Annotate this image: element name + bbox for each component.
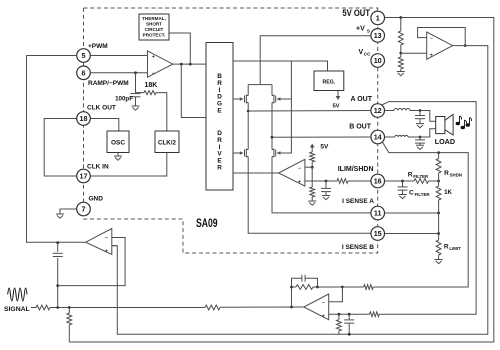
label GND: [89, 196, 104, 203]
label A OUT: [350, 96, 372, 103]
thermal protect box: [139, 14, 169, 40]
svg-text:+: +: [152, 55, 156, 61]
speaker LOAD: [435, 114, 455, 145]
wire to A cap: [410, 110, 420, 112]
music notes: [456, 116, 471, 129]
resistor pullup: [310, 152, 315, 167]
capacitor plus to ref: [344, 314, 354, 334]
comparator A1 (PWM comparator): [148, 51, 173, 77]
wire bridge top rail: [233, 61, 328, 71]
label C FILTER: [409, 190, 430, 198]
capacitor diff feedback: [292, 275, 318, 287]
svg-text:1K: 1K: [444, 189, 452, 196]
svg-text:5V OUT: 5V OUT: [342, 8, 370, 18]
svg-text:THERMAL,: THERMAL,: [142, 16, 166, 21]
svg-text:E: E: [217, 108, 222, 115]
wire input line: [50, 307, 205, 309]
resistor b feedback: [364, 285, 374, 290]
svg-text:5V: 5V: [320, 144, 329, 151]
pin 17: [77, 169, 91, 183]
comparator A2 (current limit): [279, 159, 305, 186]
svg-text:−: −: [152, 71, 156, 77]
wire buffer output to reference rail: [112, 46, 488, 335]
node fb right: [316, 286, 319, 289]
svg-text:SA09: SA09: [196, 216, 218, 230]
svg-text:B OUT: B OUT: [349, 124, 372, 131]
wire node to buffer +: [401, 52, 427, 54]
node fb left: [290, 286, 293, 289]
wire ilim + input line: [305, 180, 337, 182]
label R LIMIT: [444, 244, 461, 252]
resistor bias: [67, 308, 72, 343]
capacitor C FILTER: [398, 181, 408, 194]
svg-text:18: 18: [80, 114, 88, 123]
resistor divider bottom half: [398, 53, 403, 71]
node A cap: [419, 109, 422, 112]
node shdn: [437, 180, 440, 183]
resistor 1K: [436, 181, 441, 213]
svg-text:R: R: [217, 165, 222, 172]
pin 13: [371, 29, 385, 43]
wire pin5 to comparator +: [90, 55, 147, 57]
svg-text:+: +: [298, 180, 302, 186]
label R FILTER: [408, 172, 429, 180]
ground under A cap: [416, 124, 424, 128]
wire pin1 to outer loop: [69, 18, 494, 343]
op-amp U1 (half supply buffer): [427, 32, 453, 59]
wire pin18 to OSC: [90, 119, 119, 132]
resistor R FILTER: [414, 179, 429, 184]
wire B to load: [420, 129, 436, 137]
svg-text:−: −: [430, 36, 434, 42]
wire left rail from +PWM pin 5 down to error amp output: [27, 56, 86, 243]
wire pin7 to ground: [60, 209, 77, 214]
resistor 18K: [144, 91, 156, 95]
svg-text:CLK IN: CLK IN: [87, 164, 109, 171]
clock divider CLK/2 box: [155, 131, 179, 153]
label +Vs: [356, 26, 370, 34]
wire fb left: [291, 287, 293, 307]
label CLK IN: [87, 164, 109, 171]
wire pin15 to sense rail: [385, 213, 439, 234]
supply arrow 5V pullup: [310, 144, 329, 153]
wire thermal box to comparator output: [169, 33, 190, 64]
svg-text:+PWM: +PWM: [88, 43, 108, 50]
label SA09: [196, 216, 218, 230]
node r shdn top: [437, 151, 440, 154]
resistor R SHDN: [436, 153, 441, 181]
label 1K: [444, 189, 452, 196]
svg-text:PROTECT.: PROTECT.: [143, 33, 166, 38]
svg-text:5V: 5V: [332, 104, 339, 110]
svg-text:LOAD: LOAD: [435, 137, 455, 146]
wire upper gate bus: [277, 98, 292, 100]
svg-text:C: C: [409, 190, 414, 197]
ground under divider2: [397, 72, 405, 76]
svg-text:17: 17: [80, 172, 88, 181]
wire to pin 16: [348, 180, 371, 182]
node comparator output branch: [180, 63, 183, 66]
wire pin11 to sense rail: [385, 212, 439, 214]
label CLK OUT: [87, 105, 116, 112]
inductor A filter: [394, 109, 410, 111]
svg-text:−: −: [321, 300, 325, 306]
svg-text:10: 10: [374, 56, 382, 65]
wire pin6 RAMP to comparator -: [90, 72, 147, 74]
svg-text:SHDN: SHDN: [450, 173, 462, 178]
svg-text:I SENSE A: I SENSE A: [342, 198, 374, 205]
wire gate bus vertical: [277, 61, 292, 153]
regulator REG box: [314, 71, 344, 91]
bridge driver box: [206, 43, 233, 191]
svg-text:V: V: [359, 49, 364, 56]
node A out: [247, 110, 250, 113]
label I SENSE A: [342, 198, 374, 205]
label 100pF: [115, 96, 133, 103]
wire fb to - node: [318, 286, 343, 288]
ground under r limit: [435, 260, 443, 264]
node ilim threshold: [311, 166, 314, 169]
node thermal join: [189, 63, 192, 66]
pin 7: [77, 202, 91, 216]
wire lower-left source to I sense B: [248, 158, 371, 233]
wire A out line: [248, 110, 371, 113]
wire lower-right source to I sense A: [272, 158, 371, 213]
label ILIM/SHDN: [338, 166, 374, 173]
svg-text:R: R: [444, 244, 449, 251]
wire - to b loop: [342, 286, 363, 288]
resistor signal series: [205, 305, 220, 310]
wire buffer feedback: [418, 28, 466, 46]
ground under OSC: [114, 153, 122, 161]
svg-text:+: +: [105, 249, 109, 255]
svg-text:ILIM/SHDN: ILIM/SHDN: [338, 166, 374, 173]
node input a: [56, 306, 59, 309]
wire threshold to - input: [305, 166, 312, 168]
transistor Q2 (upper right): [272, 85, 280, 104]
ground under divider: [308, 201, 316, 205]
wire upper-right source to B node: [271, 104, 273, 137]
wire B out line: [272, 136, 371, 138]
svg-text:R: R: [408, 172, 413, 179]
svg-text:5: 5: [82, 51, 86, 60]
label 5V OUT: [342, 8, 370, 18]
wire cap node to 18K: [136, 92, 145, 94]
wire ramp branch down: [135, 73, 137, 93]
svg-text:+: +: [321, 314, 325, 320]
wire 18K to CLK/2: [156, 93, 167, 131]
node B out: [271, 136, 274, 139]
wire signal in: [31, 307, 36, 309]
pin 1: [371, 11, 385, 25]
svg-text:CIRCUIT: CIRCUIT: [145, 27, 164, 32]
ground under B cap: [416, 145, 424, 149]
node sense b: [437, 232, 440, 235]
wire clk loop pin18 to pin17: [44, 119, 76, 177]
wire comparator output to bridge driver: [173, 63, 206, 65]
svg-text:RAMP/−PWM: RAMP/−PWM: [88, 80, 129, 87]
svg-text:OSC: OSC: [111, 140, 125, 147]
svg-text:15: 15: [374, 229, 382, 238]
wire integrator - input route: [58, 238, 125, 286]
ground under ilim cap: [322, 196, 330, 200]
oscillator OSC box: [107, 131, 129, 153]
capacitor B filter: [415, 137, 425, 145]
svg-text:CC: CC: [364, 52, 371, 57]
svg-text:100pF: 100pF: [115, 96, 133, 103]
label R SHDN: [444, 170, 462, 178]
wire +Vs rail: [260, 36, 371, 85]
wire integrator cap branch: [53, 243, 63, 308]
capacitor ilim filter: [321, 181, 331, 195]
node sense a: [437, 212, 440, 215]
svg-text:11: 11: [374, 209, 382, 218]
svg-text:R: R: [444, 170, 449, 177]
transistor Q1 (upper left): [233, 85, 248, 104]
signal source sine: [8, 288, 27, 301]
wire A out feedback loop: [379, 102, 476, 315]
resistor ilim series: [337, 179, 348, 184]
svg-text:FILTER: FILTER: [413, 174, 429, 179]
svg-text:REG.: REG.: [323, 80, 336, 86]
node integrator in: [56, 284, 59, 287]
wire ilim comparator output to bridge: [233, 172, 279, 174]
capacitor 100pF: [131, 94, 141, 106]
node divider top: [399, 16, 402, 19]
label 18K: [145, 82, 158, 89]
pin 18: [77, 112, 91, 126]
ground under c filter: [399, 195, 407, 199]
svg-text:13: 13: [374, 31, 382, 40]
node plus c bottom: [348, 333, 351, 336]
node B cap: [419, 136, 422, 139]
svg-text:A OUT: A OUT: [350, 96, 372, 103]
resistor a feedback: [370, 312, 380, 317]
pin 10: [371, 54, 385, 68]
wire integrator + input: [112, 245, 118, 247]
svg-text:CLK/2: CLK/2: [158, 140, 176, 147]
resistor plus to ref: [337, 314, 342, 334]
node filter cap tap: [325, 180, 328, 183]
node ramp junction: [134, 71, 137, 74]
label Vcc: [359, 49, 372, 57]
node diff out: [290, 306, 293, 309]
svg-text:16: 16: [374, 177, 382, 186]
wire b feedback right: [373, 286, 467, 288]
label B OUT: [349, 124, 372, 131]
node half supply: [399, 52, 402, 55]
wire to diff amp: [220, 306, 304, 308]
node plus c: [348, 313, 351, 316]
capacitor A filter: [415, 111, 425, 124]
svg-text:−: −: [105, 235, 109, 241]
svg-text:6: 6: [82, 69, 86, 78]
wire pin12 out: [385, 110, 395, 112]
pin 6: [77, 66, 91, 80]
svg-text:SHORT: SHORT: [146, 22, 162, 27]
wire to B cap: [408, 136, 420, 138]
svg-text:14: 14: [374, 133, 382, 142]
label SIGNAL: [4, 306, 30, 313]
wire CLK/2 to pin17: [90, 153, 167, 177]
svg-text:+V: +V: [356, 26, 365, 33]
pin 14: [371, 130, 385, 144]
wire B out feedback loop: [382, 142, 468, 287]
wire rfilter to node: [429, 180, 439, 182]
pin 11: [371, 206, 385, 220]
pin 12: [371, 104, 385, 118]
svg-text:SIGNAL: SIGNAL: [4, 306, 30, 313]
pin 5: [77, 49, 91, 63]
svg-text:−: −: [298, 166, 302, 172]
op-amp U3 (difference amp): [304, 294, 329, 320]
wire - input route: [329, 287, 343, 302]
svg-text:LIMIT: LIMIT: [449, 246, 461, 251]
wire pin14 out: [385, 136, 395, 138]
svg-text:+: +: [430, 53, 434, 59]
resistor input: [36, 305, 50, 310]
ground under 100pF: [132, 106, 140, 110]
resistor R LIMIT: [436, 234, 441, 260]
wire upper-left source to A node: [247, 104, 249, 111]
pin 15: [371, 227, 385, 241]
svg-text:I SENSE B: I SENSE B: [342, 244, 374, 251]
wire upper drain rail: [248, 84, 272, 86]
svg-text:18K: 18K: [145, 82, 158, 89]
node buffer out: [464, 44, 467, 47]
svg-text:CLK OUT: CLK OUT: [87, 105, 116, 112]
wire pin16 out: [385, 180, 415, 182]
label +PWM: [88, 43, 108, 50]
node input b: [68, 306, 71, 309]
node c filter: [401, 180, 404, 183]
svg-text:12: 12: [374, 106, 382, 115]
node diff minus: [341, 286, 344, 289]
IC package dashed outline (SA09 boundary): [84, 8, 378, 253]
resistor divider top half: [398, 18, 403, 54]
inductor B filter: [395, 135, 408, 137]
regulator output arrow 5V: [332, 91, 340, 110]
wire A to load: [420, 111, 436, 122]
node integrator out: [56, 241, 59, 244]
svg-text:GND: GND: [89, 196, 104, 203]
svg-text:S: S: [367, 28, 370, 33]
svg-text:7: 7: [82, 205, 86, 214]
wire fb stubs: [292, 286, 318, 288]
svg-text:1: 1: [376, 14, 380, 23]
wire + input line: [329, 313, 370, 315]
wire output branch down into bridge driver: [181, 64, 206, 117]
label RAMP/-PWM: [88, 80, 129, 87]
svg-text:FILTER: FILTER: [415, 192, 431, 197]
transistor Q4 (lower right): [272, 137, 280, 158]
op-amp U2 (input integrator): [86, 229, 112, 255]
label I SENSE B: [342, 244, 374, 251]
pin 16: [371, 174, 385, 188]
transistor Q3 (lower left): [233, 111, 248, 158]
resistor diff feedback: [296, 285, 313, 290]
node plus r: [338, 313, 341, 316]
ground at pin 7: [56, 214, 64, 218]
resistor divider lower: [310, 167, 315, 201]
